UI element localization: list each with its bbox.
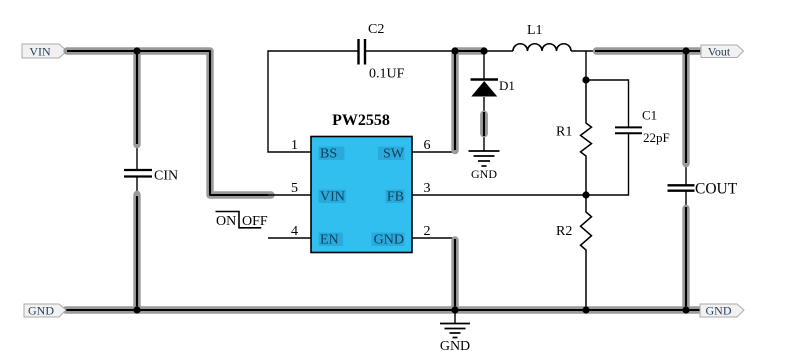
svg-text:GND: GND xyxy=(706,304,732,318)
inductor L1 xyxy=(513,23,571,51)
wire EN pin 4 xyxy=(268,237,311,239)
svg-text:0.1UF: 0.1UF xyxy=(369,67,405,82)
capacitor C2 xyxy=(359,22,405,82)
pin label EN xyxy=(319,233,344,247)
wire BS loop: pin 1 left, up, along top to C2 xyxy=(268,51,358,152)
svg-text:6: 6 xyxy=(424,138,431,153)
svg-text:GND: GND xyxy=(374,233,404,248)
svg-text:GND: GND xyxy=(28,304,54,318)
ground (bottom centre) xyxy=(440,310,470,351)
svg-text:R1: R1 xyxy=(556,125,572,140)
capacitor C1 branch wires xyxy=(586,80,629,127)
junction FB node xyxy=(582,191,589,198)
wire CIN branch lower (thin + thick) xyxy=(136,177,138,311)
net label Vout xyxy=(701,45,744,59)
pin label BS xyxy=(319,147,345,161)
svg-text:C1: C1 xyxy=(642,108,657,123)
wire D1 node to L1 xyxy=(484,50,513,52)
svg-text:COUT: COUT xyxy=(695,181,738,198)
junction IC GND xyxy=(451,306,458,313)
wire FB pin 3 to divider node xyxy=(412,194,586,196)
svg-text:D1: D1 xyxy=(499,78,515,93)
wire GND pin 2 to riser (thick down) xyxy=(412,238,455,310)
svg-text:4: 4 xyxy=(291,224,298,239)
capacitor C1 xyxy=(615,108,670,146)
junction VIN/CIN node xyxy=(133,47,140,54)
svg-text:GND: GND xyxy=(440,339,470,351)
svg-text:VIN: VIN xyxy=(29,45,51,59)
svg-text:ON: ON xyxy=(216,214,236,229)
junction SW node xyxy=(451,47,458,54)
junction R1/C1 top node xyxy=(582,76,589,83)
junction COUT/GND xyxy=(682,306,689,313)
wire COUT branch upper (thick) xyxy=(685,51,687,185)
svg-text:R2: R2 xyxy=(556,224,572,239)
net label GND (right) xyxy=(700,304,744,318)
wire GND rail bottom (thick) xyxy=(66,306,700,313)
svg-text:3: 3 xyxy=(424,181,431,196)
pin label FB xyxy=(386,190,405,204)
junction Vout/COUT node xyxy=(682,47,689,54)
wire CIN branch upper (thick stub + thin) xyxy=(136,51,138,170)
pin label GND xyxy=(372,233,405,247)
wire Vout rail (thick) xyxy=(595,47,700,54)
wire L1 to Vout rail xyxy=(571,50,600,52)
svg-text:FB: FB xyxy=(387,190,404,205)
wire C2 to SW node xyxy=(366,50,456,52)
svg-text:CIN: CIN xyxy=(154,169,178,184)
net label VIN xyxy=(22,44,67,59)
svg-text:C2: C2 xyxy=(368,22,384,37)
ground (D1) xyxy=(469,151,500,181)
svg-text:BS: BS xyxy=(320,147,337,162)
pin label SW xyxy=(378,147,405,161)
capacitor CIN xyxy=(124,169,178,184)
svg-text:Vout: Vout xyxy=(708,45,731,59)
svg-text:2: 2 xyxy=(424,224,431,239)
svg-text:5: 5 xyxy=(291,181,298,196)
wire VIN rail (thick): label to corner, down, to pin 5 xyxy=(67,51,271,195)
capacitor COUT xyxy=(668,181,738,198)
junction CIN/GND xyxy=(133,306,140,313)
wire L1 output down to R1/C1 node xyxy=(585,51,587,80)
svg-text:VIN: VIN xyxy=(320,190,345,205)
diode D1 xyxy=(471,78,515,97)
svg-text:1: 1 xyxy=(291,138,298,153)
pin label VIN xyxy=(319,190,347,204)
switch annotation ON/OFF xyxy=(216,212,268,230)
resistor R2 xyxy=(556,195,592,310)
svg-text:L1: L1 xyxy=(527,23,543,38)
svg-text:OFF: OFF xyxy=(242,214,268,229)
junction D1 node xyxy=(480,47,487,54)
svg-text:EN: EN xyxy=(320,233,339,248)
junction R2/GND xyxy=(582,306,589,313)
wire D1 branch: node down to diode xyxy=(483,51,485,79)
svg-text:22pF: 22pF xyxy=(643,130,670,145)
resistor R1 xyxy=(556,80,592,195)
wire D1 anode to ground (with thick stub) xyxy=(483,97,485,151)
svg-text:SW: SW xyxy=(383,147,405,162)
svg-text:GND: GND xyxy=(471,167,497,181)
op IC U1 PW2558 xyxy=(311,112,412,253)
svg-text:PW2558: PW2558 xyxy=(332,112,390,129)
wire COUT branch lower (thick) xyxy=(685,191,687,310)
net label GND (left) xyxy=(24,304,66,318)
wire thin to VIN pin 5 xyxy=(268,194,311,196)
wire SW node riser (thick): pin 6 up and over to D1 node xyxy=(412,51,484,152)
